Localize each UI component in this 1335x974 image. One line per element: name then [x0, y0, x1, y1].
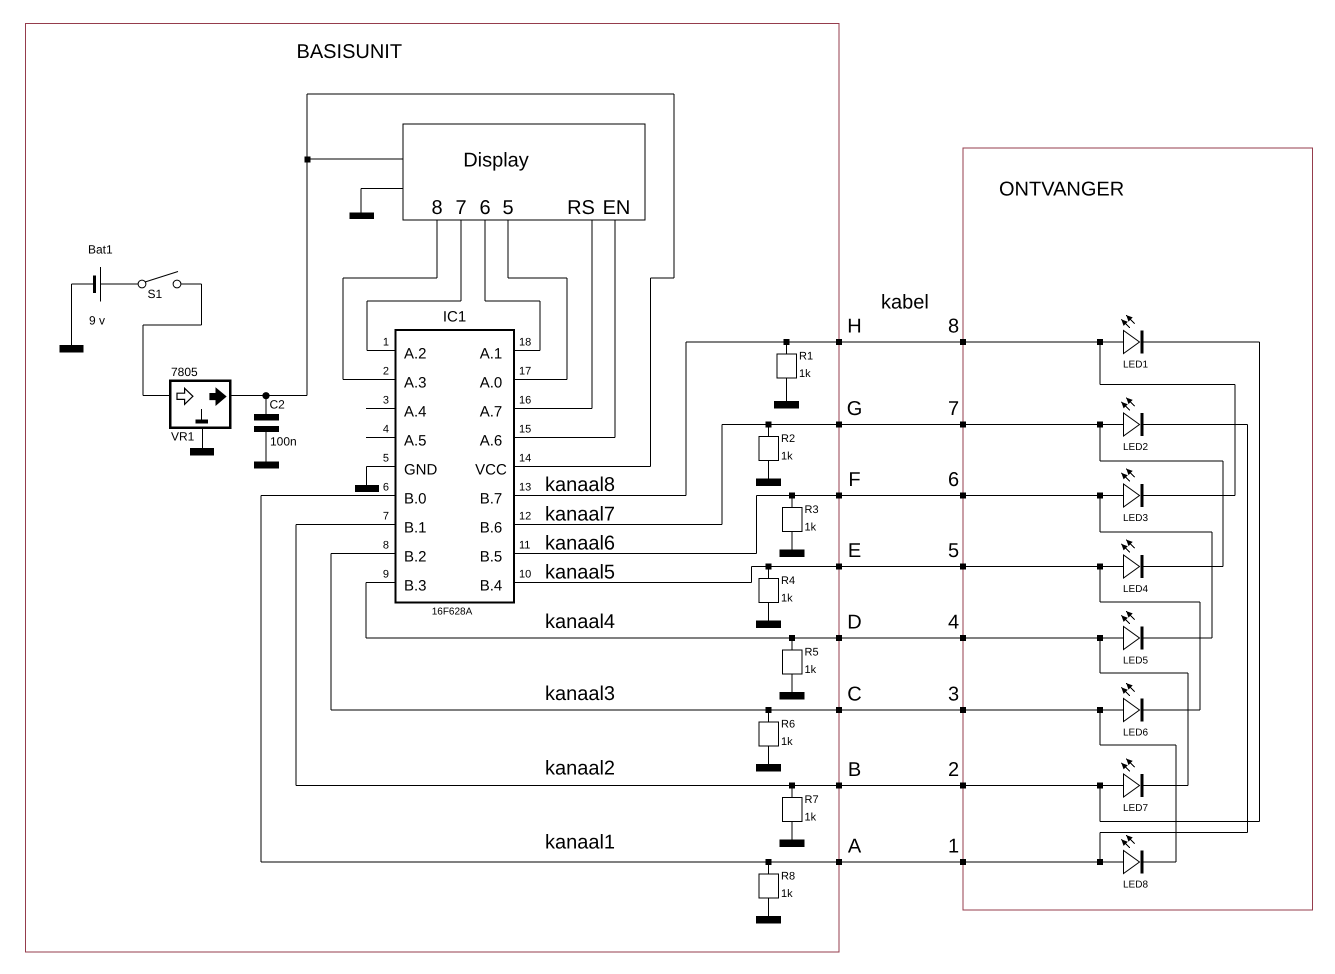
- display module: [403, 124, 645, 220]
- junction node D at basisunit border: [836, 635, 842, 641]
- junction LED7 anode: [1097, 783, 1103, 789]
- regulator VR1 7805: [170, 365, 230, 444]
- wire IC pin 4 stub: [366, 437, 396, 439]
- svg-text:A.6: A.6: [480, 433, 503, 450]
- svg-text:16F628A: 16F628A: [432, 606, 473, 617]
- wire cable 2 (node B): [839, 785, 963, 787]
- ground (R2): [756, 479, 781, 487]
- svg-text:5: 5: [383, 452, 389, 464]
- svg-text:A.7: A.7: [480, 404, 503, 421]
- junction R2 top: [766, 422, 772, 428]
- svg-text:B.5: B.5: [480, 549, 503, 566]
- svg-text:A.4: A.4: [404, 404, 427, 421]
- svg-text:6: 6: [383, 481, 389, 493]
- wire switch to regulator input: [181, 283, 202, 285]
- svg-text:H: H: [847, 316, 861, 338]
- svg-text:EN: EN: [603, 197, 631, 219]
- junction node E at basisunit border: [836, 564, 842, 570]
- svg-text:G: G: [847, 398, 863, 420]
- wire LED5 anode to LED7 cathode: [1099, 638, 1101, 673]
- wire LED8 anode to LED2 cathode: [1099, 833, 1101, 863]
- svg-text:LED6: LED6: [1123, 728, 1148, 739]
- svg-text:8: 8: [383, 539, 389, 551]
- svg-text:B.2: B.2: [404, 549, 427, 566]
- junction +5V at C2: [262, 392, 269, 399]
- svg-text:18: 18: [519, 336, 531, 348]
- capacitor C2 100n: [254, 396, 297, 462]
- svg-text:R1: R1: [799, 351, 813, 363]
- cable number 2: [948, 759, 959, 781]
- svg-text:E: E: [848, 540, 861, 562]
- junction LED1 anode: [1097, 339, 1103, 345]
- pin number 5: [383, 452, 389, 464]
- svg-text:LED7: LED7: [1123, 803, 1148, 814]
- ground (display): [349, 213, 374, 220]
- wire VCC pin 14: [514, 466, 651, 468]
- cable number 5: [948, 540, 959, 562]
- svg-text:R4: R4: [781, 575, 795, 587]
- junction node H at ontvanger border: [960, 339, 966, 345]
- svg-text:2: 2: [948, 759, 959, 781]
- svg-text:A.3: A.3: [404, 375, 427, 392]
- wire battery negative: [72, 283, 94, 285]
- svg-text:17: 17: [519, 365, 531, 377]
- svg-text:F: F: [848, 469, 860, 491]
- wire ontvanger row to LED7: [963, 785, 1124, 787]
- svg-text:1k: 1k: [781, 451, 793, 463]
- pin number 17: [519, 365, 531, 377]
- wire ontvanger row to LED2: [963, 424, 1124, 426]
- svg-text:15: 15: [519, 423, 531, 435]
- wire +5V top run: [307, 93, 674, 95]
- wire battery positive to switch: [101, 283, 139, 285]
- junction node H at basisunit border: [836, 339, 842, 345]
- svg-text:C2: C2: [270, 398, 286, 412]
- svg-text:7: 7: [383, 510, 389, 522]
- net label kanaal1: [545, 832, 615, 854]
- LED LED2: [1121, 398, 1148, 454]
- svg-text:A.2: A.2: [404, 346, 427, 363]
- LED LED1: [1121, 315, 1148, 371]
- svg-text:12: 12: [519, 510, 531, 522]
- wire net kanaal7 (B.6 pin 12 to node G): [514, 524, 722, 526]
- wire node A row: [261, 861, 839, 863]
- resistor R8 1k: [759, 862, 795, 916]
- wire net kanaal4 (B.3 pin 9 to node D): [366, 582, 396, 584]
- LED LED4: [1121, 540, 1148, 596]
- pin number 2: [383, 365, 389, 377]
- svg-text:RS: RS: [567, 197, 595, 219]
- pin number 7: [383, 510, 389, 522]
- svg-text:VR1: VR1: [171, 430, 195, 444]
- svg-text:9 v: 9 v: [89, 313, 105, 327]
- svg-text:Display: Display: [463, 150, 529, 172]
- node A label: [848, 836, 862, 858]
- wire cable 6 (node F): [839, 495, 963, 497]
- svg-text:9: 9: [383, 568, 389, 580]
- svg-text:3: 3: [948, 684, 959, 706]
- op-amp/IC U1 IC1 16F628A: [396, 308, 515, 617]
- svg-text:S1: S1: [148, 287, 163, 301]
- pin number 14: [519, 452, 531, 464]
- ground (R5): [780, 692, 805, 700]
- node G label: [847, 398, 863, 420]
- pin number 8: [383, 539, 389, 551]
- svg-text:6: 6: [948, 469, 959, 491]
- svg-text:100n: 100n: [270, 435, 297, 449]
- svg-text:1k: 1k: [805, 812, 817, 824]
- svg-text:R8: R8: [781, 871, 795, 883]
- pin number 1: [383, 336, 389, 348]
- svg-text:16: 16: [519, 394, 531, 406]
- svg-text:C: C: [847, 684, 861, 706]
- enclosure box BASISUNIT: [26, 24, 840, 952]
- wire LED1 anode to LED3 cathode: [1099, 342, 1101, 385]
- svg-text:8: 8: [431, 197, 442, 219]
- svg-text:BASISUNIT: BASISUNIT: [297, 41, 403, 63]
- junction node G at ontvanger border: [960, 422, 966, 428]
- resistor R1 1k: [777, 342, 813, 401]
- svg-text:LED3: LED3: [1123, 513, 1148, 524]
- svg-text:5: 5: [948, 540, 959, 562]
- cable number 8: [948, 316, 959, 338]
- wire node G row: [722, 424, 839, 426]
- junction LED3 anode: [1097, 493, 1103, 499]
- svg-text:B: B: [848, 759, 861, 781]
- junction R5 top: [789, 635, 795, 641]
- junction R8 top: [766, 859, 772, 865]
- svg-text:1k: 1k: [799, 368, 811, 380]
- svg-text:R7: R7: [805, 794, 819, 806]
- pin number 15: [519, 423, 531, 435]
- svg-text:LED2: LED2: [1123, 442, 1148, 453]
- svg-text:B.3: B.3: [404, 578, 427, 595]
- wire ontvanger row to LED8: [963, 861, 1124, 863]
- LED LED5: [1121, 611, 1148, 667]
- svg-text:kanaal1: kanaal1: [545, 832, 615, 854]
- svg-text:B.1: B.1: [404, 520, 427, 537]
- svg-text:1k: 1k: [781, 888, 793, 900]
- svg-text:8: 8: [948, 316, 959, 338]
- resistor R3 1k: [782, 496, 818, 550]
- svg-text:LED4: LED4: [1123, 584, 1148, 595]
- svg-text:B.0: B.0: [404, 491, 427, 508]
- node F label: [848, 469, 860, 491]
- svg-text:1: 1: [383, 336, 389, 348]
- wire LED3 anode to LED5 cathode: [1099, 496, 1101, 533]
- svg-text:1k: 1k: [781, 593, 793, 605]
- resistor R2 1k: [759, 425, 795, 479]
- resistor R6 1k: [759, 710, 795, 764]
- wire ontvanger row to LED4: [963, 566, 1124, 568]
- wire display ground: [361, 188, 403, 190]
- wire net kanaal1 (B.0 pin 6 to node A): [261, 495, 396, 497]
- wire +5V right drop to VCC: [673, 94, 675, 278]
- cable number 7: [948, 398, 959, 420]
- wire LED4 anode to LED6 cathode: [1099, 567, 1101, 603]
- wire node C row: [331, 709, 839, 711]
- ground (R1): [774, 401, 799, 409]
- wire IC pin 5 GND: [367, 466, 396, 468]
- wire cable 4 (node D): [839, 637, 963, 639]
- junction node D at ontvanger border: [960, 635, 966, 641]
- junction LED8 anode: [1097, 859, 1103, 865]
- svg-text:LED1: LED1: [1123, 360, 1148, 371]
- junction R1 top: [784, 339, 790, 345]
- svg-text:A: A: [848, 836, 862, 858]
- junction R4 top: [766, 564, 772, 570]
- cable number 6: [948, 469, 959, 491]
- ground (R3): [780, 550, 805, 558]
- wire +5V to display: [307, 158, 403, 160]
- wire display EN to IC pin 15: [614, 220, 616, 438]
- cable number 1: [948, 836, 959, 858]
- svg-text:kanaal2: kanaal2: [545, 758, 615, 780]
- label BASISUNIT: [297, 41, 403, 63]
- wire ontvanger row to LED6: [963, 709, 1124, 711]
- ground (VR1): [190, 448, 214, 456]
- svg-text:R5: R5: [805, 647, 819, 659]
- pin number 3: [383, 394, 389, 406]
- junction node B at basisunit border: [836, 783, 842, 789]
- ground (C2): [254, 462, 279, 469]
- net label kanaal6: [545, 533, 615, 555]
- junction node F at ontvanger border: [960, 493, 966, 499]
- svg-text:LED5: LED5: [1123, 656, 1148, 667]
- svg-text:R6: R6: [781, 719, 795, 731]
- ground (R6): [756, 764, 781, 772]
- wire regulator ground: [202, 428, 204, 449]
- wire net kanaal5 (B.4 pin 10 to node E): [514, 582, 752, 584]
- resistor R7 1k: [782, 786, 818, 840]
- net label kanaal8: [545, 474, 615, 496]
- wire LED7 anode to LED1 cathode: [1099, 786, 1101, 822]
- svg-text:5: 5: [502, 197, 513, 219]
- wire ontvanger row to LED1: [963, 341, 1124, 343]
- svg-text:B.4: B.4: [480, 578, 503, 595]
- resistor R4 1k: [759, 567, 795, 621]
- pin number 10: [519, 568, 531, 580]
- svg-text:1k: 1k: [805, 664, 817, 676]
- ground (R7): [780, 840, 805, 848]
- pin number 11: [519, 539, 530, 551]
- net label kanaal5: [545, 562, 615, 584]
- svg-text:kanaal8: kanaal8: [545, 474, 615, 496]
- svg-text:2: 2: [383, 365, 389, 377]
- junction R6 top: [766, 707, 772, 713]
- switch S1: [138, 272, 181, 301]
- net label kanaal4: [545, 611, 615, 633]
- svg-text:kanaal5: kanaal5: [545, 562, 615, 584]
- wire node F row: [757, 495, 840, 497]
- wire net kanaal6 (B.5 pin 11 to node F): [514, 553, 757, 555]
- svg-text:B.7: B.7: [480, 491, 503, 508]
- wire LED2 anode to LED4 cathode: [1099, 425, 1101, 462]
- svg-text:7: 7: [455, 197, 466, 219]
- junction node E at ontvanger border: [960, 564, 966, 570]
- wire LED6 anode to LED8 cathode: [1099, 710, 1101, 745]
- svg-text:kanaal7: kanaal7: [545, 504, 615, 526]
- pin number 18: [519, 336, 531, 348]
- svg-text:1k: 1k: [781, 736, 793, 748]
- svg-text:kanaal3: kanaal3: [545, 683, 615, 705]
- wire +5V vertical riser: [306, 94, 308, 396]
- pin number 16: [519, 394, 531, 406]
- junction R3 top: [789, 493, 795, 499]
- wire net kanaal8 (B.7 pin 13 to node H): [514, 495, 686, 497]
- junction node F at basisunit border: [836, 493, 842, 499]
- LED LED3: [1121, 469, 1148, 524]
- wire display RS to IC pin 16: [591, 220, 593, 409]
- svg-text:1k: 1k: [805, 522, 817, 534]
- svg-text:kanaal4: kanaal4: [545, 611, 615, 633]
- wire node D row: [366, 637, 839, 639]
- svg-text:A.5: A.5: [404, 433, 427, 450]
- junction node G at basisunit border: [836, 422, 842, 428]
- wire node B row: [296, 785, 839, 787]
- junction +5V to display: [305, 157, 311, 163]
- net label kanaal2: [545, 758, 615, 780]
- junction node C at ontvanger border: [960, 707, 966, 713]
- svg-text:7: 7: [948, 398, 959, 420]
- svg-text:4: 4: [383, 423, 389, 435]
- wire cable 5 (node E): [839, 566, 963, 568]
- wire ontvanger row to LED5: [963, 637, 1124, 639]
- junction node A at basisunit border: [836, 859, 842, 865]
- junction R7 top: [789, 783, 795, 789]
- ground (IC pin 5): [355, 485, 379, 492]
- wire display pin 5 to IC pin 17: [507, 220, 509, 278]
- ground (R4): [756, 621, 781, 629]
- node E label: [848, 540, 861, 562]
- LED LED8: [1121, 835, 1148, 891]
- junction node B at ontvanger border: [960, 783, 966, 789]
- wire node E row: [752, 566, 840, 568]
- svg-text:13: 13: [519, 481, 531, 493]
- node B label: [848, 759, 861, 781]
- svg-text:B.6: B.6: [480, 520, 503, 537]
- svg-text:3: 3: [383, 394, 389, 406]
- wire net kanaal2 (B.1 pin 7 to node B): [296, 524, 396, 526]
- junction LED2 anode: [1097, 422, 1103, 428]
- cable number 3: [948, 684, 959, 706]
- LED LED7: [1121, 759, 1148, 815]
- wire regulator output +5V: [230, 395, 307, 397]
- pin number 12: [519, 510, 531, 522]
- wire node H row: [686, 341, 839, 343]
- label kabel: [881, 292, 929, 314]
- svg-text:LED8: LED8: [1123, 880, 1148, 891]
- pin number 9: [383, 568, 389, 580]
- svg-text:ONTVANGER: ONTVANGER: [999, 179, 1124, 201]
- wire display pin 6 to IC pin 18: [484, 220, 486, 301]
- junction node C at basisunit border: [836, 707, 842, 713]
- pin number 6: [383, 481, 389, 493]
- net label kanaal7: [545, 504, 615, 526]
- svg-text:A.0: A.0: [480, 375, 503, 392]
- resistor R5 1k: [782, 638, 818, 692]
- wire cable 1 (node A): [839, 861, 963, 863]
- wire ontvanger row to LED3: [963, 495, 1124, 497]
- junction LED5 anode: [1097, 635, 1103, 641]
- svg-text:6: 6: [479, 197, 490, 219]
- svg-text:IC1: IC1: [443, 308, 466, 325]
- svg-text:A.1: A.1: [480, 346, 503, 363]
- svg-text:kanaal6: kanaal6: [545, 533, 615, 555]
- node D label: [847, 612, 861, 634]
- pin number 4: [383, 423, 389, 435]
- node C label: [847, 684, 861, 706]
- LED LED6: [1121, 683, 1148, 739]
- junction node A at ontvanger border: [960, 859, 966, 865]
- svg-text:R2: R2: [781, 433, 795, 445]
- cable number 4: [948, 612, 959, 634]
- net label kanaal3: [545, 683, 615, 705]
- junction LED4 anode: [1097, 564, 1103, 570]
- svg-text:VCC: VCC: [475, 462, 507, 479]
- enclosure box ONTVANGER: [963, 148, 1312, 910]
- label ONTVANGER: [999, 179, 1124, 201]
- svg-text:R3: R3: [805, 504, 819, 516]
- battery Bat1 9v: [88, 242, 113, 327]
- svg-text:D: D: [847, 612, 861, 634]
- svg-text:Bat1: Bat1: [88, 242, 113, 256]
- pin number 13: [519, 481, 531, 493]
- svg-text:1: 1: [948, 836, 959, 858]
- wire display pin 7 to IC pin 1: [460, 220, 462, 301]
- wire cable 8 (node H): [839, 341, 963, 343]
- wire display pin 8 to IC pin 2: [436, 220, 438, 278]
- svg-text:4: 4: [948, 612, 959, 634]
- svg-text:GND: GND: [404, 462, 438, 479]
- node H label: [847, 316, 861, 338]
- svg-text:kabel: kabel: [881, 292, 929, 314]
- wire cable 3 (node C): [839, 709, 963, 711]
- svg-text:10: 10: [519, 568, 531, 580]
- ground (R8): [756, 916, 781, 924]
- wire cable 7 (node G): [839, 424, 963, 426]
- junction LED6 anode: [1097, 707, 1103, 713]
- svg-text:14: 14: [519, 452, 531, 464]
- wire IC pin 3 stub: [366, 408, 396, 410]
- svg-text:7805: 7805: [171, 365, 198, 379]
- svg-text:11: 11: [519, 539, 530, 551]
- ground (battery): [60, 345, 84, 353]
- wire net kanaal3 (B.2 pin 8 to node C): [331, 553, 396, 555]
